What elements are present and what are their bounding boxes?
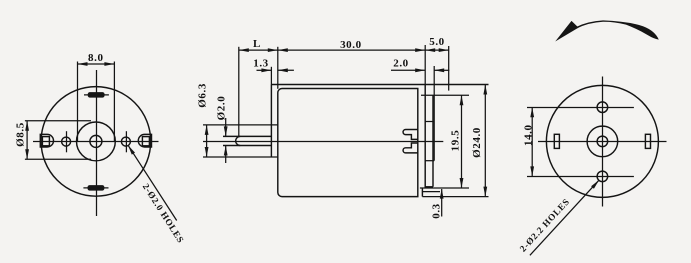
dim 2.0 left tail and arrow [391,69,425,71]
dim dia2.0 lower arrow [225,146,227,164]
cap bottom edge [425,186,433,188]
svg-text:19.5: 19.5 [450,130,462,152]
medium boss circle [77,122,116,161]
right tab slot [142,137,149,146]
svg-text:2.0: 2.0 [393,58,409,70]
terminal bottom [403,143,418,153]
dim 8.0 extension lines [77,62,79,143]
vertical centerline [96,70,98,216]
svg-text:14.0: 14.0 [522,124,534,146]
end cap inner face [432,95,434,187]
bottom hole tick + 14.0 ext [527,176,634,178]
svg-text:8.0: 8.0 [88,52,104,64]
dim dia8.5 line [26,121,28,160]
outer circle (motor can front) [41,87,151,197]
dim dia2.0 upper arrow [225,118,227,136]
can bottom ext line to dia24 [422,196,488,198]
0.3 lip line + 19.5 bottom ext [420,187,469,189]
svg-text:Ø24.0: Ø24.0 [471,127,483,158]
right slot [645,134,650,148]
cap bump bottom tick [425,160,434,162]
dim dia8.5 extension lines [25,120,91,122]
bottom vent slot (filled) [88,185,105,191]
shaft circle [90,135,102,147]
leader 0.3 [441,189,443,217]
shaft bottom line + ext [223,145,271,147]
ext line cap rear [424,45,426,85]
svg-text:5.0: 5.0 [429,36,445,48]
dim 8.0 line [78,63,115,65]
dim 14.0 line [531,107,533,176]
terminal top [403,130,418,140]
dim 2.0 right tail and arrow [434,69,449,71]
rear shaft circle [597,136,608,147]
can front lip [270,85,272,158]
dim 19.5 line [461,95,463,188]
right mounting hole [121,137,130,146]
bottom hole [597,171,608,182]
left slot [554,134,559,148]
rotation direction swoosh [555,21,578,42]
shared ext line body front [277,47,279,89]
ext line lip [270,67,272,85]
outer circle rear [546,85,658,197]
can top outer edge + dia24 ext [271,84,488,86]
bearing boss bottom edge + dia6.3 ext [203,156,278,158]
dim dia24.0 line [484,85,486,197]
left mounting hole [62,137,71,146]
dim 30.0 line [278,49,425,51]
horizontal centerline [33,141,159,143]
dim L ext line [238,47,240,136]
svg-text:0.3: 0.3 [431,203,443,219]
left tab slot [42,137,49,146]
ext line 5.0 right [448,46,450,91]
svg-text:L: L [253,38,261,50]
shaft top line + ext [223,135,271,137]
cap top edge + 19.5 ext [421,94,469,96]
right ear tab [138,134,151,147]
dim dia6.3 line [206,125,208,157]
rear boss circle [587,126,618,157]
cap bump top tick [425,121,434,123]
can body outline [278,89,418,197]
left ear tab [40,134,53,147]
horizontal centerline [538,141,667,143]
top hole tick + 14.0 ext [527,107,634,109]
vertical centerline [602,77,604,207]
svg-text:Ø8.5: Ø8.5 [15,122,27,147]
svg-text:30.0: 30.0 [340,39,362,51]
bearing boss top edge + dia6.3 ext [203,124,278,126]
cap bottom step vertical [421,188,423,197]
left hole tick [66,131,68,152]
dim L line [239,49,278,51]
top vent slot (filled) [88,92,105,98]
leader 2-dia2.0 holes [128,145,177,220]
svg-text:Ø2.0: Ø2.0 [216,96,228,121]
shaft tip [236,136,241,145]
dim 1.3 left tail and arrow [257,69,272,71]
motor axis centerline [203,141,443,143]
end cap rear face [424,85,426,189]
cap bottom step edge [422,191,440,193]
dim 1.3 right tail and arrow [278,69,294,71]
right hole tick [125,131,127,152]
svg-text:Ø6.3: Ø6.3 [196,83,208,108]
leader 2-dia2.2 holes [530,180,599,255]
dim 5.0 line [425,49,449,51]
top hole [597,102,608,113]
svg-text:1.3: 1.3 [253,58,269,70]
cap bump face + 2.0 ext [433,66,435,161]
